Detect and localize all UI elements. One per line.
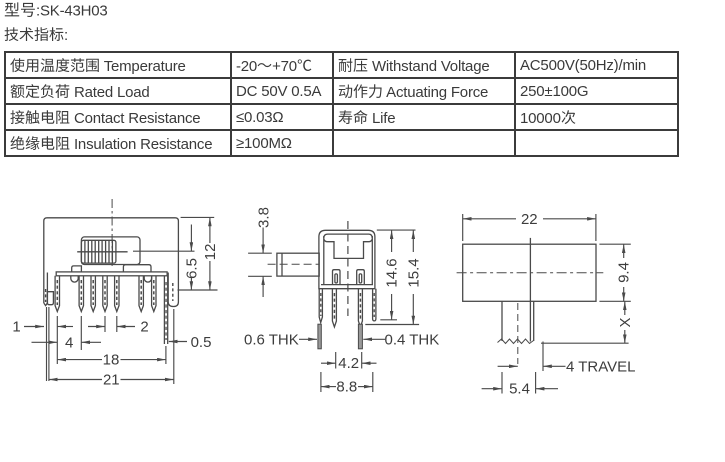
front view knob housing — [81, 237, 140, 265]
side view body cover — [319, 230, 375, 288]
dim 4.2 line — [321, 362, 336, 364]
dim 1 right segment — [57, 326, 73, 328]
front view thin pin dashes — [165, 282, 167, 340]
svg-text:15.4: 15.4 — [405, 258, 422, 287]
svg-text:0.6 THK: 0.6 THK — [244, 331, 299, 348]
thin pin ext — [165, 346, 167, 364]
dim 3.8 ext top — [248, 252, 272, 254]
front view pin 5 slot dashes — [116, 280, 118, 305]
travel ext line — [542, 342, 544, 372]
dim 22 ext right — [595, 214, 597, 241]
side view outer pin left — [319, 289, 322, 323]
leader 0.6 THK — [299, 338, 317, 340]
front view right mounting tab — [168, 273, 178, 307]
top view shaft center dashed — [517, 303, 519, 364]
dim 4 travel left segment — [498, 365, 518, 367]
svg-text:0.4 THK: 0.4 THK — [385, 331, 440, 348]
thk pad left — [318, 324, 321, 349]
pin5 ext line — [116, 316, 118, 332]
front view pin 2 slot dashes — [80, 280, 82, 305]
dim X line — [624, 301, 626, 315]
side view knob cap line — [281, 253, 283, 276]
svg-text:14.6: 14.6 — [384, 258, 401, 287]
top view vertical center solid line — [529, 238, 531, 342]
svg-text:4.2: 4.2 — [338, 355, 359, 372]
front view thin solder pin 0.5 — [164, 276, 167, 344]
front view vertical centerline — [111, 199, 113, 267]
top view shaft right edge — [533, 301, 535, 341]
front view pin 7 slot dashes — [153, 280, 155, 305]
front view pin 3 slot dashes — [92, 280, 94, 305]
dim 21 line — [49, 379, 102, 381]
svg-text:1: 1 — [12, 319, 20, 336]
dim 18 line — [57, 359, 102, 361]
svg-text:4 TRAVEL: 4 TRAVEL — [566, 358, 635, 375]
dim 15.4 line — [412, 230, 414, 252]
dim 14.6 line — [391, 230, 393, 252]
dim 15.4 bottom ext — [365, 324, 419, 326]
dim 4 right segment — [81, 341, 101, 343]
front view right tab slot dashes — [172, 283, 174, 301]
svg-text:4: 4 — [65, 335, 73, 352]
pin1 ext line — [56, 316, 58, 364]
side view vertical centerline — [347, 221, 349, 316]
side view outer pin right — [373, 289, 376, 321]
front view pin 1 — [55, 276, 59, 312]
pin2 ext line — [80, 316, 82, 350]
dimension 12 line — [209, 218, 211, 244]
dim 4.2 ext right — [361, 352, 363, 369]
dim 9.4 line — [623, 244, 625, 258]
side view contact slot right — [359, 274, 362, 283]
dim 3.8 ext bottom — [248, 275, 272, 277]
front view flange bump left — [71, 276, 78, 282]
svg-text:21: 21 — [103, 372, 120, 389]
left tab ext lines — [46, 307, 48, 381]
dim 14.6 bottom ext — [380, 319, 397, 321]
svg-text:3.8: 3.8 — [256, 207, 273, 228]
dim 4 travel right segment — [543, 365, 566, 367]
svg-text:18: 18 — [103, 352, 120, 369]
ext line knob mid right — [133, 250, 195, 252]
front view pin 6 slot dashes — [140, 280, 142, 305]
dim 9.4 ext top — [599, 243, 630, 245]
dim 2 right segment — [117, 326, 135, 328]
front view flange bar — [56, 272, 167, 276]
front view pin 3 — [91, 276, 95, 312]
svg-text:22: 22 — [521, 211, 538, 228]
dim 5.4 ext left — [501, 372, 503, 394]
right tab ext line — [173, 309, 175, 384]
front view left mounting tab — [44, 273, 48, 306]
dim 22 line — [463, 218, 516, 220]
dim 8.8 ext right — [372, 372, 374, 392]
side view inner top — [324, 234, 372, 238]
ext line body top right — [181, 216, 215, 218]
dim 8.8 ext left — [320, 372, 322, 392]
dim 5.4 ext right — [535, 372, 537, 394]
svg-text:X: X — [617, 317, 634, 327]
side view inner wall right — [371, 236, 373, 285]
svg-text:2: 2 — [140, 319, 148, 336]
dim 2 left segment — [88, 326, 105, 328]
svg-text:5.4: 5.4 — [509, 381, 530, 398]
side view top ext — [377, 229, 416, 231]
side view inner wall left — [323, 236, 325, 285]
front view left bracket above flange — [72, 266, 82, 272]
dim 3.8 line — [262, 228, 264, 254]
front view knob ribs — [81, 240, 116, 263]
front view body cover — [44, 218, 179, 303]
front view pin 6 — [139, 276, 143, 312]
svg-text:12: 12 — [202, 244, 219, 261]
dim 8.8 line — [321, 386, 336, 388]
svg-text:6.5: 6.5 — [183, 258, 200, 279]
svg-text:9.4: 9.4 — [616, 262, 633, 283]
top view body rectangle — [463, 244, 596, 301]
side view base line — [321, 284, 373, 286]
X bottom leader — [541, 342, 629, 344]
front view pin 2 — [79, 276, 83, 312]
dim 4 left segment — [32, 341, 58, 343]
side view knob — [277, 253, 319, 276]
front view pin 5 — [115, 276, 119, 312]
front view pin 1 slot dashes — [56, 280, 58, 305]
front view right bracket above flange — [123, 265, 151, 272]
side view knob centerline — [268, 263, 320, 265]
front view knob mid line — [77, 251, 127, 253]
svg-text:0.5: 0.5 — [191, 334, 212, 351]
side view middle pin left — [332, 289, 336, 327]
front view pin 4 — [103, 276, 107, 312]
dim 22 ext left — [462, 214, 464, 241]
front view pin 4 slot dashes — [104, 280, 106, 305]
leader 0.4 THK — [363, 338, 385, 340]
front view flange bump right — [144, 276, 151, 282]
top view break zigzag — [498, 339, 534, 344]
side view slider window — [324, 239, 373, 258]
side view middle pin right — [358, 289, 362, 327]
top view shaft left edge — [501, 301, 503, 341]
side view contact slot left — [335, 274, 338, 283]
front view pin 7 — [152, 276, 156, 312]
dim 9.4 ext bottom — [599, 300, 630, 302]
svg-text:8.8: 8.8 — [336, 379, 357, 396]
ext line mounting plane right — [178, 289, 218, 291]
thk pad right — [358, 324, 362, 349]
dim 5.4 line — [482, 388, 502, 390]
dim 4.2 ext left — [335, 352, 337, 369]
dimension 6.5 line — [190, 225, 192, 252]
pin4 ext line — [104, 316, 106, 332]
front view left tab slot dashes — [45, 289, 47, 302]
top view horizontal centerline — [457, 272, 604, 274]
front view left tab bent foot — [47, 292, 53, 305]
side view contact tower right — [357, 270, 365, 285]
side view contact tower left — [333, 270, 341, 285]
dim 0.5 leader — [169, 341, 187, 343]
dim row 1: label 1 leader — [24, 326, 44, 328]
